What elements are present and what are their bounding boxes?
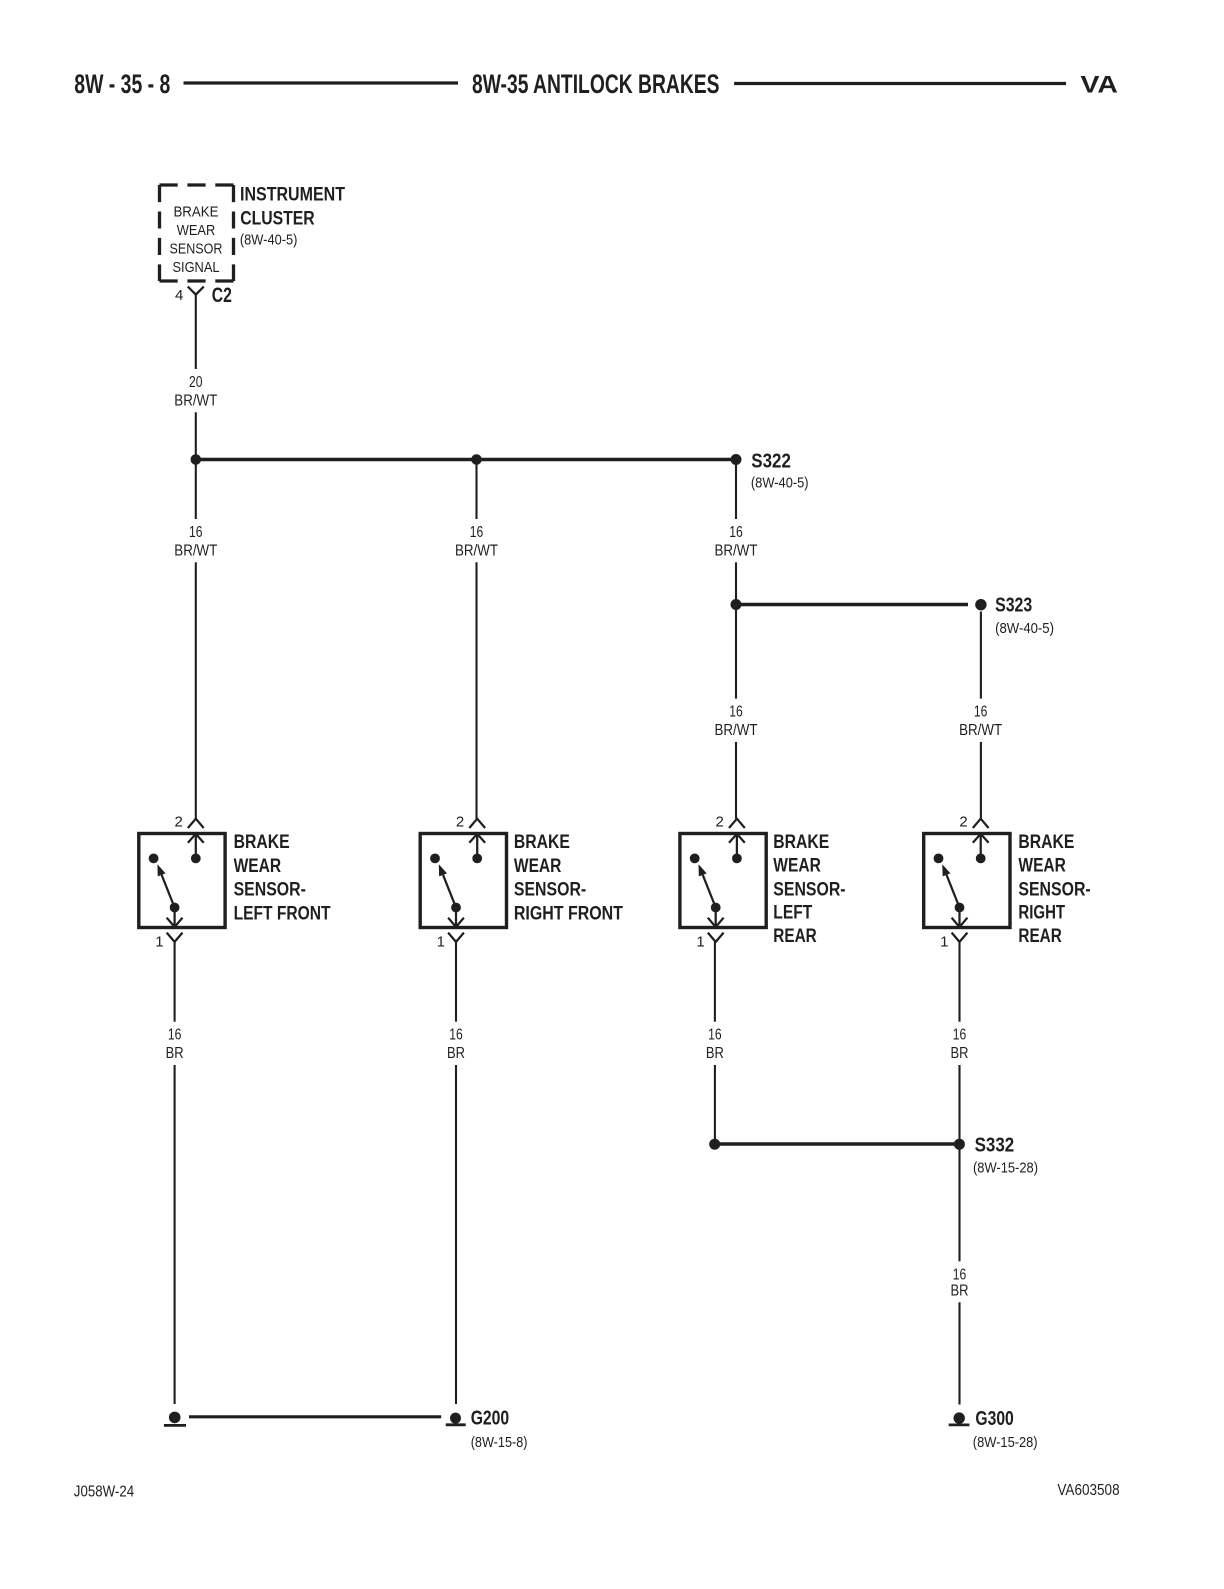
svg-text:BRAKE: BRAKE <box>173 204 218 221</box>
brake wear sensor - right rear: pin 1 internal arrow <box>952 918 968 927</box>
svg-text:16: 16 <box>729 704 743 721</box>
brake wear sensor - right rear: box outline <box>924 834 1010 928</box>
ground G200 left terminal node <box>169 1412 181 1424</box>
brake wear sensor - right front: connector chevron at pin 1 <box>448 933 464 942</box>
brake wear sensor - right front: pin 2 internal arrow <box>469 834 485 843</box>
svg-text:(8W-40-5): (8W-40-5) <box>751 475 809 492</box>
brake wear sensor - left front: connector chevron at pin 2 <box>188 819 204 828</box>
brake wear sensor - right rear: connector chevron at pin 2 <box>973 819 989 828</box>
ground G300 node <box>954 1412 965 1423</box>
svg-text:16: 16 <box>953 1266 967 1283</box>
bus wire of splice S332 <box>715 1142 960 1145</box>
svg-text:(8W-15-28): (8W-15-28) <box>973 1159 1038 1176</box>
brake wear sensor - right front: switch pivot node <box>472 854 482 864</box>
svg-text:WEAR: WEAR <box>1018 855 1066 877</box>
wire: C2 pin 4 to splice S322 (20 BR/WT) <box>195 295 197 460</box>
brake wear sensor - left front: box outline <box>139 834 225 928</box>
svg-text:WEAR: WEAR <box>773 855 821 877</box>
wire: S323 to right rear sensor (16 BR/WT) <box>980 612 982 819</box>
wire label 16 BR/WT (wire 3) <box>707 519 765 562</box>
svg-text:20: 20 <box>189 374 203 391</box>
wire label 16 BR (left front) <box>146 1022 204 1065</box>
svg-text:BRAKE: BRAKE <box>773 831 829 853</box>
wire label 16 BR/WT (wire 4) <box>952 699 1010 742</box>
svg-text:J058W-24: J058W-24 <box>74 1484 134 1501</box>
svg-text:VA603508: VA603508 <box>1057 1482 1119 1499</box>
svg-text:S323: S323 <box>995 594 1032 617</box>
connector C2 symbol <box>188 287 204 295</box>
svg-text:SENSOR-: SENSOR- <box>1018 878 1090 900</box>
svg-text:(8W-15-8): (8W-15-8) <box>471 1434 528 1451</box>
ground G200 node <box>450 1413 461 1424</box>
header rule left <box>184 81 459 84</box>
svg-text:2: 2 <box>456 814 464 831</box>
svg-text:SIGNAL: SIGNAL <box>172 259 219 276</box>
brake wear sensor - left front: pin 2 internal arrow <box>188 834 204 843</box>
svg-text:16: 16 <box>189 524 203 541</box>
ground symbol bar G300 <box>949 1424 970 1427</box>
svg-text:LEFT FRONT: LEFT FRONT <box>234 902 331 924</box>
svg-text:16: 16 <box>708 1027 722 1044</box>
wire label 16 BR (S332 to G300) <box>931 1261 989 1302</box>
svg-text:BR: BR <box>166 1045 184 1062</box>
brake wear sensor - right rear: switch fixed contact node <box>934 854 944 864</box>
svg-text:4: 4 <box>175 287 183 304</box>
svg-text:1: 1 <box>155 934 163 951</box>
svg-text:BR/WT: BR/WT <box>174 392 217 409</box>
wire: S322 to S323 / left rear sensor (16 BR/WT) <box>735 460 737 819</box>
brake wear sensor - left rear: pin 1 internal arrow <box>708 918 724 927</box>
svg-text:G300: G300 <box>975 1407 1013 1430</box>
brake wear sensor - right rear: stem to pin 1 <box>958 908 960 927</box>
svg-text:1: 1 <box>437 934 445 951</box>
svg-text:S332: S332 <box>975 1134 1015 1157</box>
svg-text:SENSOR-: SENSOR- <box>773 878 845 900</box>
junction node at wire 3 / S323 bus <box>731 599 742 610</box>
bus wire of splice S322 <box>196 458 736 461</box>
brake wear sensor - right rear: connector chevron at pin 1 <box>952 933 968 942</box>
brake wear sensor - left rear: switch fixed contact node <box>690 854 700 864</box>
svg-text:BR/WT: BR/WT <box>959 722 1002 739</box>
svg-text:16: 16 <box>470 524 484 541</box>
svg-text:8W - 35 - 8: 8W - 35 - 8 <box>74 69 170 99</box>
bus wire to ground G200 <box>189 1415 441 1418</box>
junction node at wire 2 / S322 bus <box>471 454 482 465</box>
instrument cluster dashed connector box <box>160 185 234 281</box>
wire: right front sensor pin 1 to G200 (16 BR) <box>455 942 457 1404</box>
wire: left front sensor pin 1 to G200 (16 BR) <box>174 942 176 1404</box>
wire: S322 to right front sensor (16 BR/WT) <box>475 460 477 819</box>
wire label 16 BR (left rear) <box>686 1022 744 1065</box>
svg-text:16: 16 <box>953 1027 967 1044</box>
wire label 20 BR/WT <box>167 369 225 412</box>
svg-text:BR: BR <box>951 1282 969 1299</box>
svg-text:BR: BR <box>951 1045 969 1062</box>
svg-text:BR/WT: BR/WT <box>174 542 217 559</box>
brake wear sensor - left front: switch pivot node <box>191 854 201 864</box>
brake wear sensor - left rear: pin 2 internal arrow <box>729 834 745 843</box>
brake wear sensor - left rear: switch pivot node <box>732 854 742 864</box>
brake wear sensor - left front: connector chevron at pin 1 <box>167 933 183 942</box>
svg-text:(8W-40-5): (8W-40-5) <box>240 231 298 248</box>
svg-text:2: 2 <box>716 814 724 831</box>
wire: S322 to left front sensor (16 BR/WT) <box>195 460 197 819</box>
brake wear sensor - right rear: switch wiper arm <box>947 875 960 908</box>
svg-text:8W-35 ANTILOCK BRAKES: 8W-35 ANTILOCK BRAKES <box>472 69 720 99</box>
splice S322 node <box>731 454 742 465</box>
svg-text:SENSOR-: SENSOR- <box>234 879 306 901</box>
svg-text:16: 16 <box>449 1027 463 1044</box>
svg-text:RIGHT: RIGHT <box>1018 902 1065 924</box>
svg-text:BR/WT: BR/WT <box>715 722 758 739</box>
brake wear sensor - right front: switch fixed contact node <box>430 854 440 864</box>
svg-text:INSTRUMENT: INSTRUMENT <box>240 184 345 206</box>
wire label 16 BR/WT (wire 2) <box>448 519 506 562</box>
svg-text:BRAKE: BRAKE <box>234 831 290 853</box>
wire label 16 BR/WT (wire 1) <box>167 519 225 562</box>
brake wear sensor - right rear: pin 2 internal arrow <box>973 834 989 843</box>
ground symbol bar (left) <box>164 1424 186 1427</box>
brake wear sensor - right front: pin 1 internal arrow <box>448 918 464 927</box>
brake wear sensor - left front: stem to pin 1 <box>173 908 175 927</box>
svg-text:BR: BR <box>706 1045 724 1062</box>
brake wear sensor - left rear: switch wiper arm <box>703 875 716 908</box>
wire: left rear sensor pin 1 to S332 (16 BR) <box>714 942 716 1140</box>
header rule right <box>734 82 1066 85</box>
svg-text:BRAKE: BRAKE <box>514 831 570 853</box>
bus wire of splice S323 <box>736 603 968 606</box>
brake wear sensor - left rear: box outline <box>680 834 766 928</box>
svg-text:BR: BR <box>447 1045 465 1062</box>
svg-text:(8W-15-28): (8W-15-28) <box>973 1434 1038 1451</box>
svg-text:VA: VA <box>1081 72 1119 99</box>
splice S332 node <box>954 1139 965 1150</box>
brake wear sensor - left front: switch wiper arm <box>162 875 175 908</box>
wire: right rear sensor pin 1 through S332 to G300 (16 BR) <box>958 942 960 1405</box>
brake wear sensor - right rear: switch pivot node <box>976 854 986 864</box>
brake wear sensor - right front: box outline <box>420 834 506 928</box>
svg-text:BRAKE: BRAKE <box>1018 831 1074 853</box>
svg-text:(8W-40-5): (8W-40-5) <box>995 620 1054 637</box>
svg-text:WEAR: WEAR <box>177 222 216 239</box>
brake wear sensor - right front: stem to pin 1 <box>455 908 457 927</box>
svg-text:BR/WT: BR/WT <box>455 542 498 559</box>
svg-text:REAR: REAR <box>1018 925 1061 947</box>
junction node at left rear wire / S332 <box>709 1139 720 1150</box>
brake wear sensor - left rear: switch common node <box>711 903 721 913</box>
svg-text:CLUSTER: CLUSTER <box>240 207 315 229</box>
ground symbol bar G200 <box>446 1423 466 1426</box>
wire label 16 BR/WT (wire 3 lower) <box>707 699 765 742</box>
svg-text:C2: C2 <box>212 284 232 307</box>
svg-text:BR/WT: BR/WT <box>715 542 758 559</box>
brake wear sensor - right front: switch wiper arm <box>443 875 456 908</box>
wire label 16 BR (right rear) <box>931 1022 989 1065</box>
brake wear sensor - left front: pin 1 internal arrow <box>167 918 183 927</box>
brake wear sensor - right rear: switch common node <box>955 903 965 913</box>
svg-text:WEAR: WEAR <box>514 855 562 877</box>
svg-text:SENSOR: SENSOR <box>170 241 223 258</box>
svg-text:LEFT: LEFT <box>773 902 812 924</box>
node: brake wear sensor signal (cluster internal label) <box>170 204 223 277</box>
svg-text:SENSOR-: SENSOR- <box>514 879 586 901</box>
svg-text:1: 1 <box>940 934 948 951</box>
wire label 16 BR (right front) <box>427 1022 485 1065</box>
brake wear sensor - left front: switch common node <box>170 903 180 913</box>
svg-text:WEAR: WEAR <box>234 855 282 877</box>
svg-text:G200: G200 <box>471 1406 510 1429</box>
brake wear sensor - left rear: connector chevron at pin 1 <box>708 933 724 942</box>
brake wear sensor - right front: connector chevron at pin 2 <box>469 819 485 828</box>
svg-text:16: 16 <box>729 524 743 541</box>
splice S323 node <box>975 599 986 610</box>
svg-text:S322: S322 <box>751 449 791 472</box>
brake wear sensor - left rear: stem to pin 1 <box>715 908 717 927</box>
svg-text:RIGHT FRONT: RIGHT FRONT <box>514 902 623 924</box>
svg-text:REAR: REAR <box>773 925 816 947</box>
svg-text:2: 2 <box>959 814 967 831</box>
svg-text:2: 2 <box>174 814 182 831</box>
brake wear sensor - left front: switch fixed contact node <box>149 854 159 864</box>
junction node at wire 1 / S322 bus <box>191 454 202 465</box>
svg-text:16: 16 <box>974 704 988 721</box>
svg-text:1: 1 <box>696 934 704 951</box>
svg-text:16: 16 <box>168 1027 182 1044</box>
brake wear sensor - right front: switch common node <box>451 903 461 913</box>
brake wear sensor - left rear: connector chevron at pin 2 <box>729 819 745 828</box>
